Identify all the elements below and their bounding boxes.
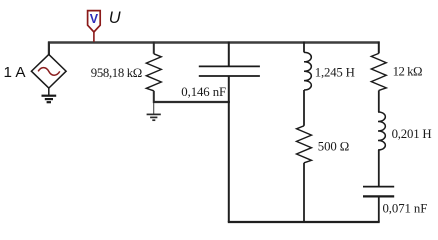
svg-text:0,071 nF: 0,071 nF [383, 202, 428, 216]
resistor R3 500 Ω [297, 126, 312, 163]
wire C1 branch top [228, 42, 230, 67]
ground (under node) [147, 114, 161, 120]
svg-text:0,146 nF: 0,146 nF [181, 85, 226, 99]
voltmeter probe V (stem) [93, 32, 95, 42]
inductor L2 0,201 H [378, 112, 385, 150]
wire node (R1 bottom to C1 branch) [153, 101, 230, 103]
svg-text:1,245 H: 1,245 H [315, 65, 355, 79]
capacitor C2 0,071 nF [363, 187, 394, 197]
svg-text:0,201 H: 0,201 H [392, 127, 432, 141]
wire R3 bottom [303, 163, 305, 222]
current source I1 (diamond with sine) [31, 54, 66, 88]
wire top rail [48, 41, 380, 44]
wire C1 bottom [228, 76, 230, 222]
wire R2 branch top [378, 42, 380, 54]
ground (under source) [42, 96, 57, 103]
resistor R1 958,18 kΩ [146, 54, 161, 91]
wire C2 bottom [378, 196, 380, 222]
wire L1 to R3 [303, 90, 305, 126]
wire L2 to C2 [378, 150, 380, 186]
svg-text:958,18 kΩ: 958,18 kΩ [91, 66, 142, 80]
svg-text:U: U [109, 9, 121, 27]
resistor R2 12 kΩ [371, 53, 386, 90]
wire source to ground [48, 88, 50, 95]
wire bottom rail [228, 221, 380, 223]
capacitor C1 0,146 nF [199, 66, 260, 76]
svg-text:1 A: 1 A [4, 64, 27, 81]
wire L1 branch top [303, 42, 305, 53]
svg-text:V: V [90, 12, 99, 26]
inductor L1 1,245 H [304, 52, 311, 90]
wire R1 branch top [153, 42, 155, 54]
wire R2 to L2 [378, 90, 380, 112]
svg-text:500 Ω: 500 Ω [318, 140, 349, 154]
wire ground stem [153, 103, 155, 114]
wire source branch top [48, 42, 50, 56]
svg-text:12 kΩ: 12 kΩ [393, 65, 422, 79]
voltmeter probe V (body) [88, 11, 101, 32]
wire R1 bottom to node [153, 91, 155, 101]
